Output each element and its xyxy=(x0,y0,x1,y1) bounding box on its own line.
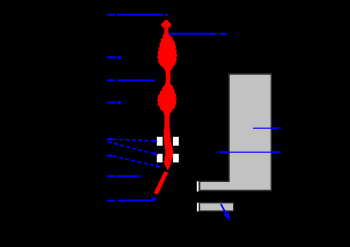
arrow: deflected beam label (bottom left, pointing up-right) xyxy=(107,197,158,202)
electron beam upper column (gun cone, condenser lens 1, crossover, lens 2, column) xyxy=(157,31,178,170)
filament tip (red mushroom ball of electron gun) xyxy=(161,20,171,31)
chamber block with stage arm (gray L-shape) xyxy=(200,74,272,191)
arrow: detector label (bottom right, pointing down-right) xyxy=(221,204,230,221)
dashed arrow: lower scan plate xyxy=(108,142,158,156)
deflected beam (diagonal red dash to bottom-left) xyxy=(154,171,169,194)
deflection plate lower-right xyxy=(173,154,179,163)
deflection plate upper-right xyxy=(173,137,179,146)
leader line: gun anode label (to the right of cone) xyxy=(168,33,226,35)
leader line: objective label (short flat) xyxy=(107,175,141,177)
dashed arrow: upper scan plate xyxy=(107,139,158,143)
detector bar white end tick xyxy=(197,203,199,212)
deflection plate lower-left xyxy=(157,154,163,163)
leader line: crossover label xyxy=(107,79,155,81)
leader line: specimen label (crossing chamber) xyxy=(216,151,280,153)
leader line: filament label (top) xyxy=(107,14,168,16)
detector bar (lower gray bar) xyxy=(200,203,234,211)
arrow: first condenser lens xyxy=(107,55,122,60)
stage arm white end tick xyxy=(197,181,199,191)
arrow: second condenser lens xyxy=(107,100,122,105)
deflection plate upper-left xyxy=(157,137,163,146)
leader line: backscatter detector label (into chamber right side) xyxy=(253,127,279,129)
dashed arrow: beam exit xyxy=(107,156,161,168)
